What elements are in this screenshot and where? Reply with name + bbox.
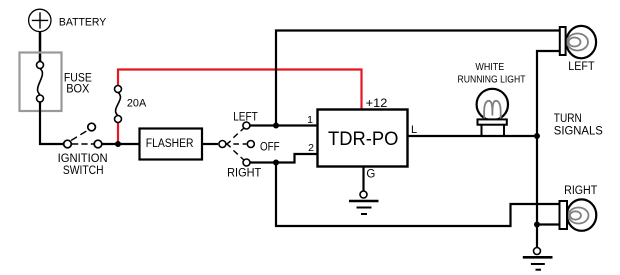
svg-text:BATTERY: BATTERY (59, 17, 107, 29)
svg-text:SIGNALS: SIGNALS (554, 125, 603, 137)
wire LEFT contact to pin 1 (250, 124, 318, 126)
lamp white running light DS1 (477, 89, 508, 135)
svg-text:LEFT: LEFT (568, 61, 594, 73)
selector dashed line to OFF (233, 143, 246, 145)
svg-text:20A: 20A (127, 98, 147, 110)
svg-text:L: L (411, 124, 417, 136)
label IGNITION SWITCH (58, 151, 108, 177)
selector contact OFF (247, 141, 254, 148)
svg-text:LEFT: LEFT (233, 110, 258, 124)
svg-text:2: 2 (308, 142, 314, 154)
wire pin L to lamps junction (408, 135, 538, 137)
wire RIGHT contact to pin 2 (250, 154, 318, 163)
vertical wire junction D to junction E (536, 136, 538, 248)
wire battery to fuse box (39, 32, 42, 62)
lamp LEFT turn signal DS2 (560, 26, 596, 58)
wire ignition switch to flasher (102, 143, 140, 145)
ground symbol (relay) (349, 201, 379, 214)
label FUSE BOX (64, 72, 92, 95)
wire pin G to ground (362, 167, 364, 191)
svg-text:TURN: TURN (554, 113, 582, 125)
battery B1 (29, 9, 51, 31)
wire right lamp to junction E (537, 223, 560, 225)
relay box TDR-PO U1 (318, 110, 408, 167)
svg-text:WHITE: WHITE (475, 62, 504, 73)
fuse F2 20A (115, 69, 122, 123)
top wire node B to left lamp (276, 31, 560, 126)
fuse F1 in fuse box (37, 62, 44, 103)
svg-text:FLASHER: FLASHER (146, 138, 194, 150)
fuse box enclosure (20, 53, 62, 112)
ground terminal circle (lamps) (534, 248, 541, 255)
flasher box FL1 (140, 129, 203, 160)
svg-text:1: 1 (307, 114, 313, 126)
svg-text:OFF: OFF (260, 140, 280, 154)
junction node A (ignition/20A) (115, 141, 121, 147)
svg-text:RIGHT: RIGHT (564, 185, 597, 197)
wire fuse box to ignition switch (40, 102, 64, 144)
svg-text:TDR-PO: TDR-PO (328, 129, 398, 150)
ground terminal circle (G) (360, 191, 367, 198)
junction node D (running light / turn signal) (534, 133, 540, 139)
svg-text:RUNNING LIGHT: RUNNING LIGHT (458, 74, 526, 85)
svg-text:G: G (366, 169, 375, 181)
label TURN SIGNALS (554, 113, 603, 137)
junction node C (right/bottom wire) (273, 160, 279, 166)
svg-text:BOX: BOX (66, 83, 90, 95)
red wire junction to 20A fuse (117, 122, 119, 144)
junction node B (left/top wire) (273, 123, 279, 129)
selector switch arrow (227, 141, 231, 147)
svg-text:SWITCH: SWITCH (63, 163, 104, 177)
selector switch S2 common pole (219, 141, 226, 148)
junction node E (right lamp / ground) (534, 222, 540, 228)
bottom wire node C to right lamp (276, 163, 560, 227)
lamp RIGHT turn signal DS3 (560, 199, 597, 230)
wire flasher to selector switch (202, 143, 218, 145)
red wire 20A to +12 pin (117, 70, 362, 110)
svg-text:RIGHT: RIGHT (227, 166, 262, 180)
selector dashed line to RIGHT (233, 150, 243, 160)
selector dashed line to LEFT (233, 128, 243, 138)
ground symbol (lamps) (523, 257, 553, 269)
svg-text:+12: +12 (366, 98, 388, 110)
wire left lamp to junction D (537, 51, 560, 136)
selector contact RIGHT (243, 159, 250, 166)
ignition switch S1 (64, 123, 102, 148)
label WHITE RUNNING LIGHT (458, 62, 526, 85)
selector contact LEFT (243, 122, 250, 129)
